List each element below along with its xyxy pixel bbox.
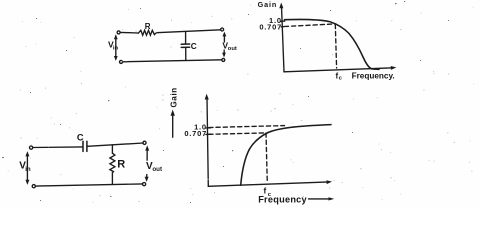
capacitor C1 top plate bbox=[181, 43, 189, 45]
capacitor C1 bottom lead bbox=[185, 48, 187, 61]
high-pass response curve bbox=[241, 125, 331, 186]
Vout arrow bottom shaft (bottom circuit) bbox=[146, 175, 148, 180]
low-pass response curve bbox=[285, 19, 380, 69]
svg-text:Gain: Gain bbox=[170, 87, 179, 107]
svg-text:in: in bbox=[25, 166, 31, 173]
Vin arrow line (top circuit) bbox=[115, 36, 117, 59]
tick 1.0 (top graph) bbox=[281, 20, 285, 22]
capacitor C2 left plate bbox=[82, 141, 84, 151]
Vin arrow line (bottom circuit) bbox=[26, 153, 28, 182]
tick 0.707 (bottom graph) bbox=[206, 133, 211, 135]
resistor R2 top lead bbox=[111, 145, 113, 153]
wire top-left circuit top bbox=[120, 31, 138, 34]
tick 0.707 (top graph) bbox=[281, 26, 284, 28]
dashed fc vertical (top graph) bbox=[335, 24, 336, 68]
svg-text:Frequency.: Frequency. bbox=[352, 72, 395, 81]
frequency label arrow (bottom graph) bbox=[309, 198, 331, 200]
resistor R1 zigzag bbox=[138, 30, 156, 35]
dashed 0.707 level (bottom graph) bbox=[209, 133, 266, 134]
Vout arrow top shaft (top circuit) bbox=[223, 34, 225, 43]
terminal bottom-circuit top-right bbox=[143, 141, 146, 144]
dashed fc vertical (bottom graph) bbox=[266, 133, 267, 183]
scan noise speckles bbox=[2, 1, 449, 203]
svg-text:Gain: Gain bbox=[258, 0, 278, 9]
Vout arrow top shaft (bottom circuit) bbox=[146, 148, 148, 161]
svg-text:R: R bbox=[117, 158, 125, 170]
svg-text:0.707: 0.707 bbox=[184, 129, 207, 138]
Vout arrow bottom shaft (top circuit) bbox=[223, 50, 225, 56]
terminal top-right bbox=[221, 28, 224, 31]
dashed 1.0 level (bottom graph) bbox=[209, 126, 285, 128]
capacitor C1 bottom plate bbox=[181, 46, 189, 48]
y-axis (bottom graph) bbox=[207, 98, 208, 187]
gain arrow (below rotated label) bbox=[172, 114, 174, 138]
svg-text:Frequency: Frequency bbox=[258, 194, 307, 204]
svg-text:c: c bbox=[339, 76, 343, 82]
svg-text:R: R bbox=[145, 22, 151, 31]
capacitor C2 right plate bbox=[86, 141, 88, 151]
y-axis gain (top graph) bbox=[282, 6, 285, 72]
svg-text:out: out bbox=[152, 166, 162, 173]
svg-text:0.707: 0.707 bbox=[259, 23, 282, 32]
resistor R2 zigzag bbox=[110, 153, 115, 173]
terminal bottom-circuit bottom-left bbox=[32, 185, 35, 188]
terminal bottom-right bbox=[222, 58, 225, 61]
terminal bottom-circuit bottom-right bbox=[143, 183, 146, 186]
wire bottom of top circuit bbox=[123, 60, 222, 62]
wire from resistor to right terminal bbox=[157, 30, 221, 33]
resistor R2 bottom lead bbox=[111, 173, 113, 184]
capacitor C1 top lead bbox=[185, 32, 187, 44]
wire capacitor to right terminal bbox=[88, 143, 144, 146]
terminal bottom-circuit top-left bbox=[30, 146, 33, 149]
terminal bottom-left bbox=[120, 60, 123, 63]
svg-text:in: in bbox=[113, 46, 119, 52]
x-axis frequency (top graph) bbox=[284, 68, 393, 72]
svg-text:C: C bbox=[191, 42, 197, 51]
svg-text:C: C bbox=[77, 133, 84, 143]
dashed 0.707 level (top graph) bbox=[284, 24, 335, 27]
wire bottom of bottom circuit bbox=[35, 184, 142, 186]
x-axis (bottom graph) bbox=[208, 182, 329, 186]
terminal top-left bbox=[117, 31, 120, 34]
tick 1.0 (bottom graph) bbox=[206, 127, 211, 129]
svg-text:out: out bbox=[228, 46, 237, 52]
wire top-left to capacitor bbox=[33, 146, 83, 149]
